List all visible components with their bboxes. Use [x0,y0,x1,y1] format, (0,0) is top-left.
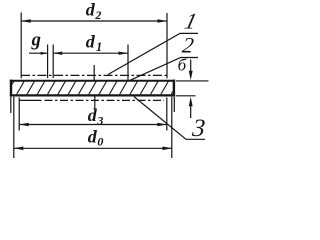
svg-text:d2: d2 [86,0,102,22]
svg-text:d3: d3 [88,105,104,127]
svg-text:1: 1 [182,9,199,34]
svg-text:3: 3 [190,115,206,142]
svg-text:d0: d0 [88,126,104,148]
svg-text:2: 2 [181,32,195,57]
svg-text:g: g [31,30,41,50]
svg-text:б: б [178,56,187,75]
svg-text:d1: d1 [86,32,102,54]
